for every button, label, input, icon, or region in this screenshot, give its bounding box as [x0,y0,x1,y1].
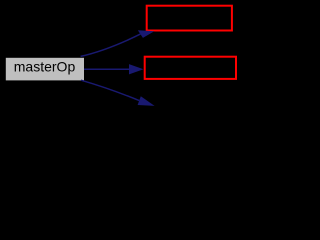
svg-text:masterOp: masterOp [14,58,76,74]
